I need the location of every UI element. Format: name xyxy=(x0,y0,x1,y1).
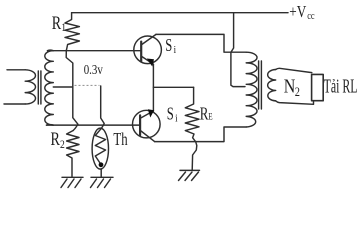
svg-text:i: i xyxy=(174,44,177,56)
svg-text:R: R xyxy=(51,128,61,150)
svg-text:S: S xyxy=(167,105,174,125)
svg-text:+V: +V xyxy=(289,4,306,22)
svg-text:2: 2 xyxy=(295,85,300,99)
svg-text:1: 1 xyxy=(61,21,66,34)
svg-text:Th: Th xyxy=(113,130,127,149)
svg-text:R: R xyxy=(52,12,62,34)
svg-text:E: E xyxy=(208,112,212,122)
svg-text:i: i xyxy=(175,113,178,125)
svg-text:S: S xyxy=(165,36,172,56)
svg-text:Tải RL: Tải RL xyxy=(324,74,358,97)
svg-text:cc: cc xyxy=(307,11,314,22)
svg-text:N: N xyxy=(284,75,296,97)
svg-text:2: 2 xyxy=(60,138,65,151)
svg-text:0.3v: 0.3v xyxy=(84,62,104,77)
